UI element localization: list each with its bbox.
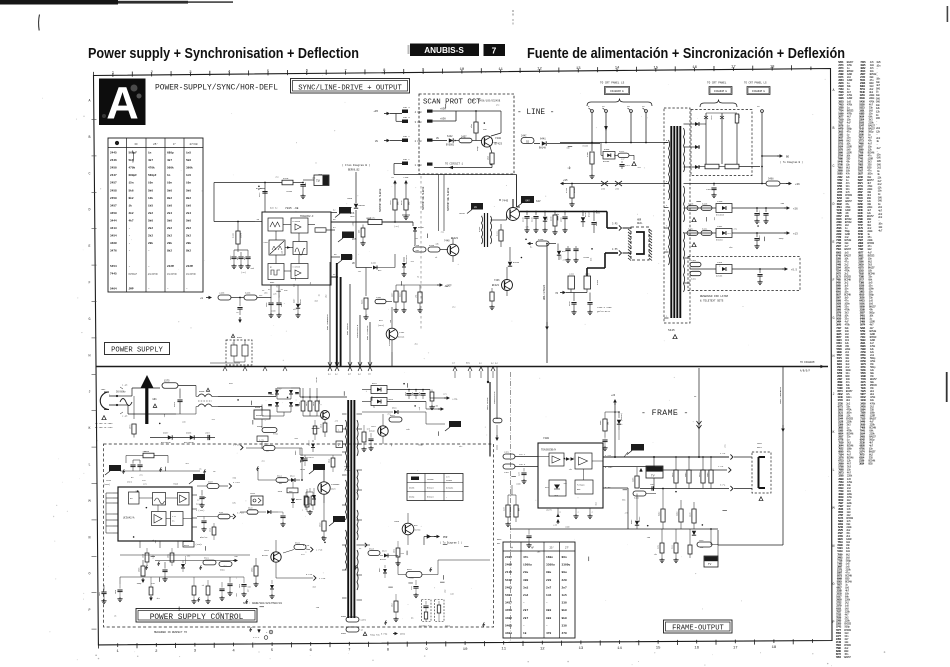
svg-text:2k2: 2k2 bbox=[186, 234, 191, 238]
svg-text:3428: 3428 bbox=[283, 177, 289, 180]
svg-text:100n: 100n bbox=[516, 482, 521, 485]
svg-text:6 P13: 6 P13 bbox=[306, 573, 313, 576]
svg-text:2507: 2507 bbox=[205, 432, 211, 435]
svg-text:7440: 7440 bbox=[495, 137, 502, 140]
svg-text:3': 3' bbox=[173, 142, 176, 146]
svg-text:5445: 5445 bbox=[668, 329, 675, 332]
svg-text:+5.5: +5.5 bbox=[791, 269, 798, 272]
svg-text:3444: 3444 bbox=[110, 219, 117, 222]
fold dash-dot line bbox=[510, 372, 512, 377]
svg-text:A/B/E/F: A/B/E/F bbox=[800, 370, 811, 373]
svg-text:120k: 120k bbox=[319, 400, 321, 404]
svg-text:2402: 2402 bbox=[505, 556, 512, 559]
svg-text:100n: 100n bbox=[101, 388, 106, 391]
svg-text:3457: 3457 bbox=[110, 204, 117, 207]
frame ic diode block bbox=[549, 480, 566, 496]
resistor 3468 rail36 bbox=[766, 181, 780, 186]
connector 2 P4 bbox=[728, 467, 731, 472]
diode 6588 extra bbox=[271, 580, 273, 584]
svg-text:7431: 7431 bbox=[399, 331, 405, 334]
capacitor 2586 bbox=[227, 583, 232, 585]
svg-text:2k4: 2k4 bbox=[167, 211, 172, 215]
svg-text:TO CRT PANEL LS: TO CRT PANEL LS bbox=[744, 82, 767, 85]
svg-text:100n: 100n bbox=[350, 215, 355, 218]
svg-text:hF: hF bbox=[135, 142, 139, 146]
svg-text:1R8: 1R8 bbox=[416, 295, 418, 298]
svg-text:BYD33: BYD33 bbox=[513, 261, 520, 264]
frame ic pins bottom bbox=[557, 508, 559, 514]
transistor 7503 bbox=[402, 523, 414, 535]
capacitor 2428 bbox=[302, 178, 304, 183]
svg-text:2402: 2402 bbox=[699, 539, 704, 542]
svg-text:S2000AF: S2000AF bbox=[331, 483, 340, 486]
svg-text:H: H bbox=[833, 354, 835, 358]
arrow +35 bbox=[426, 408, 440, 410]
svg-text:TO DIAGRAM: TO DIAGRAM bbox=[800, 361, 815, 364]
svg-text:MEASURED IN RESPECT TO: MEASURED IN RESPECT TO bbox=[154, 631, 188, 634]
junction sandcastle bbox=[487, 381, 489, 383]
svg-text:Q1: Q1 bbox=[270, 267, 272, 269]
svg-text:QW/LN-OPTS: QW/LN-OPTS bbox=[597, 310, 611, 313]
svg-text:+85A: +85A bbox=[440, 108, 446, 111]
svg-text:2461: 2461 bbox=[717, 225, 723, 228]
diode 6402 bbox=[636, 517, 638, 520]
svg-text:64V: 64V bbox=[536, 200, 541, 203]
svg-text:2432: 2432 bbox=[230, 256, 232, 260]
svg-text:3441: 3441 bbox=[496, 230, 499, 236]
svg-text:27': 27' bbox=[565, 547, 570, 550]
svg-text:BYD33: BYD33 bbox=[256, 187, 263, 190]
svg-text:TO CRT PANEL: TO CRT PANEL bbox=[707, 82, 727, 85]
svg-text:5580: 5580 bbox=[237, 336, 243, 339]
svg-text:4k7: 4k7 bbox=[293, 308, 296, 311]
wire sync input vertical bbox=[355, 172, 357, 203]
svg-text:560p: 560p bbox=[137, 582, 142, 585]
resistor 3501a bbox=[146, 548, 148, 553]
svg-text:3451: 3451 bbox=[505, 609, 512, 612]
wire to circuit 1 bbox=[491, 164, 493, 168]
resistor 3510 arrow bbox=[149, 587, 153, 595]
svg-text:3519: 3519 bbox=[329, 459, 331, 463]
svg-text:20k: 20k bbox=[186, 241, 191, 245]
resistor 3465 bbox=[687, 206, 698, 211]
secondary diode box 6504 bbox=[371, 386, 387, 394]
svg-text:BAV45: BAV45 bbox=[296, 498, 301, 501]
svg-text:2512: 2512 bbox=[405, 392, 407, 396]
input resistor 2455 bbox=[206, 297, 210, 299]
svg-text:390: 390 bbox=[523, 579, 528, 582]
svg-text:UC3842/A: UC3842/A bbox=[123, 517, 135, 520]
secondary diode box 6506 bbox=[371, 398, 387, 406]
svg-text:G: G bbox=[89, 317, 91, 321]
transistor 7431 bbox=[386, 328, 398, 340]
svg-text:2575: 2575 bbox=[173, 401, 176, 407]
svg-text:6402: 6402 bbox=[631, 520, 633, 524]
resistor 3515 bbox=[324, 420, 326, 423]
diode 6515 bbox=[312, 440, 314, 442]
svg-text:12k: 12k bbox=[152, 555, 154, 558]
svg-text:C.K.I: C.K.I bbox=[253, 636, 260, 639]
arrow BO to diagram B bbox=[762, 155, 779, 157]
svg-text:5k6: 5k6 bbox=[167, 188, 172, 192]
svg-text:3452: 3452 bbox=[691, 278, 697, 281]
resistor 3440 bbox=[428, 247, 440, 252]
wire to frame ic bbox=[490, 456, 497, 458]
svg-text:12: 12 bbox=[537, 67, 542, 71]
svg-text:POR: POR bbox=[443, 536, 448, 539]
tv load icon 1 bbox=[646, 466, 663, 478]
diode 6500 bbox=[182, 561, 184, 564]
svg-text:47u: 47u bbox=[155, 540, 157, 543]
resistor 3526 bbox=[368, 551, 380, 556]
svg-text:9k0: 9k0 bbox=[562, 616, 567, 620]
connector stub 4 C48 bbox=[427, 110, 433, 113]
svg-text:2458: 2458 bbox=[110, 189, 117, 192]
caps 2439 bbox=[573, 248, 578, 250]
svg-text:hF: hF bbox=[531, 547, 535, 550]
stereo dashed option box bbox=[422, 600, 432, 622]
svg-text:560p: 560p bbox=[779, 237, 784, 240]
svg-text:BA157: BA157 bbox=[844, 656, 851, 659]
svg-text:7590: 7590 bbox=[173, 483, 179, 486]
svg-text:10: 10 bbox=[460, 68, 465, 72]
svg-text:2460: 2460 bbox=[717, 200, 723, 203]
svg-text:TV: TV bbox=[708, 563, 712, 566]
caps 2466 bbox=[565, 248, 570, 250]
svg-text:5k6: 5k6 bbox=[129, 188, 134, 192]
svg-text:3521: 3521 bbox=[204, 557, 210, 560]
svg-text:2576: 2576 bbox=[130, 425, 132, 429]
wire frame out 3 bbox=[603, 487, 628, 489]
wire sync input lower bbox=[355, 221, 357, 268]
resistor 5462 bbox=[701, 231, 712, 236]
svg-text:7503: 7503 bbox=[394, 520, 400, 523]
svg-text:1n5: 1n5 bbox=[186, 174, 191, 177]
frame ic arrows bbox=[566, 457, 570, 461]
svg-text:6423: 6423 bbox=[400, 293, 402, 297]
svg-text:SUPPORTING SLEEVE: SUPPORTING SLEEVE bbox=[447, 187, 450, 211]
svg-text:1n: 1n bbox=[148, 152, 152, 155]
svg-text:N: N bbox=[89, 535, 91, 539]
capacitor 2507 bbox=[207, 435, 209, 440]
svg-text:BA105: BA105 bbox=[359, 204, 366, 207]
svg-text:3300u: 3300u bbox=[546, 564, 555, 567]
svg-text:9k0: 9k0 bbox=[562, 608, 567, 612]
svg-text:-: - bbox=[546, 602, 548, 605]
svg-text:0V5: 0V5 bbox=[352, 238, 357, 241]
svg-text:EB20: EB20 bbox=[184, 544, 190, 547]
svg-text:SANDCASTLE: SANDCASTLE bbox=[356, 324, 359, 338]
svg-text:FRAME-OUTPUT: FRAME-OUTPUT bbox=[672, 625, 724, 633]
svg-text:2514: 2514 bbox=[419, 392, 421, 396]
svg-text:3406: 3406 bbox=[633, 478, 635, 482]
bus to diagram arrow bbox=[816, 366, 822, 368]
svg-text:8k2: 8k2 bbox=[129, 196, 134, 200]
svg-text:1 P15: 1 P15 bbox=[316, 549, 323, 552]
resistor 3464 bbox=[690, 271, 701, 275]
svg-text:BA157: BA157 bbox=[638, 517, 641, 522]
posistor dashed option box bbox=[226, 340, 252, 365]
box WS05 bbox=[254, 410, 270, 419]
flag frame rail bbox=[627, 451, 632, 455]
transformer 5445 pin stubs left bbox=[664, 142, 669, 144]
transistor 7440b bbox=[447, 244, 459, 256]
diagram letter A box bbox=[99, 79, 146, 126]
svg-text:FLYBACK: FLYBACK bbox=[577, 484, 585, 487]
resistor 2438 bbox=[375, 299, 386, 303]
svg-text:TV2 1: TV2 1 bbox=[519, 453, 526, 456]
wire hor flyback vertical 2 bbox=[369, 322, 371, 366]
resistor 3459 bbox=[591, 143, 593, 152]
svg-text:1k: 1k bbox=[418, 276, 420, 278]
svg-text:2472: 2472 bbox=[625, 164, 631, 167]
hor defl loop bbox=[636, 232, 644, 254]
wire sandcastle vertical bbox=[359, 315, 361, 366]
svg-text:2467: 2467 bbox=[595, 221, 598, 226]
svg-text:G: G bbox=[833, 316, 835, 320]
frame bottom rail bbox=[510, 528, 718, 530]
resistor 3521 bbox=[203, 560, 216, 565]
capacitor 2467 bbox=[593, 212, 595, 222]
svg-text:17: 17 bbox=[733, 646, 738, 650]
vert feedback vertical wire bbox=[782, 367, 784, 546]
svg-text:5464: 5464 bbox=[110, 287, 117, 290]
svg-text:D: D bbox=[89, 208, 91, 212]
wire +5 rail bbox=[690, 268, 716, 270]
svg-text:DEFL: DEFL bbox=[757, 446, 763, 449]
svg-text:3 C48: 3 C48 bbox=[415, 121, 423, 124]
resistor 3441 bbox=[499, 230, 503, 241]
svg-text:SCH : 3458/105/03245B: SCH : 3458/105/03245B bbox=[470, 100, 501, 103]
svg-text:VERT: VERT bbox=[757, 442, 763, 445]
svg-text:DEFL: DEFL bbox=[637, 222, 643, 225]
crt pin wires group bbox=[591, 110, 594, 113]
resistor 3508 top bbox=[143, 453, 154, 458]
svg-text:RESERVED FOR LATAM: RESERVED FOR LATAM bbox=[700, 295, 728, 298]
svg-text:1n5: 1n5 bbox=[562, 594, 567, 597]
transformer 5520 core bars bbox=[347, 400, 349, 618]
svg-text:15: 15 bbox=[653, 66, 658, 70]
hor defl hatched box bbox=[631, 227, 649, 260]
svg-text:7510: 7510 bbox=[300, 468, 306, 471]
svg-text:+26: +26 bbox=[611, 394, 616, 397]
resistor 3502 bbox=[219, 562, 232, 567]
wire tda top feed bbox=[213, 183, 215, 222]
uc pin stubs bbox=[113, 492, 118, 494]
svg-text:2: 2 bbox=[578, 511, 579, 514]
svg-text:5 P13: 5 P13 bbox=[303, 544, 310, 547]
svg-text:2481: 2481 bbox=[504, 451, 510, 454]
svg-text:3527: 3527 bbox=[264, 443, 270, 446]
svg-text:POWER SUPPLY: POWER SUPPLY bbox=[111, 347, 163, 355]
flag TP07 bbox=[189, 480, 194, 484]
svg-text:3511: 3511 bbox=[306, 402, 308, 406]
svg-text:2n2: 2n2 bbox=[387, 413, 390, 416]
svg-text:5k6/1%: 5k6/1% bbox=[200, 536, 208, 539]
uc pin wires left bbox=[106, 492, 113, 494]
resistor 3457 bbox=[455, 140, 459, 142]
fuse 1575 bbox=[162, 383, 178, 389]
svg-text:2477: 2477 bbox=[758, 210, 761, 215]
transistor 7445 line output bbox=[507, 208, 520, 221]
svg-text:HOR FLYBACK: HOR FLYBACK bbox=[366, 325, 369, 340]
svg-text:15n: 15n bbox=[129, 182, 134, 185]
diode box 6462 bbox=[716, 229, 732, 238]
svg-text:2 C48: 2 C48 bbox=[415, 140, 423, 143]
diode D13 winding low bbox=[690, 166, 700, 168]
diagram E box 2 bbox=[709, 87, 732, 95]
svg-text:DEMO: DEMO bbox=[400, 633, 406, 636]
wire uc top rail bbox=[120, 470, 200, 472]
svg-text:4k7: 4k7 bbox=[167, 158, 172, 162]
svg-text:2445: 2445 bbox=[110, 152, 117, 155]
badge 7 bbox=[484, 44, 506, 56]
mono dashed option box bbox=[435, 600, 445, 622]
svg-text:SB 160 TO 250V: SB 160 TO 250V bbox=[95, 422, 113, 425]
svg-text:HOR FEEDBACK: HOR FEEDBACK bbox=[326, 314, 329, 330]
thick arrow mains bbox=[145, 380, 148, 424]
svg-text:47n: 47n bbox=[335, 420, 338, 423]
svg-text:2452: 2452 bbox=[691, 259, 697, 262]
svg-text:5k6: 5k6 bbox=[186, 158, 191, 162]
svg-text:BYD33: BYD33 bbox=[286, 190, 293, 193]
svg-text:42: 42 bbox=[268, 288, 270, 291]
svg-text:5526: 5526 bbox=[295, 542, 301, 545]
tda left pin wire bbox=[255, 221, 262, 223]
wire s-correction path bbox=[605, 252, 618, 254]
box 2.5L bbox=[257, 436, 268, 442]
svg-text:(0V6): (0V6) bbox=[104, 483, 110, 486]
badge ANUBIS-S bbox=[410, 44, 479, 57]
svg-text:+26: +26 bbox=[793, 208, 798, 211]
svg-text:25': 25' bbox=[153, 142, 158, 146]
svg-text:MONO: MONO bbox=[445, 625, 451, 628]
IC 7400 TDA3653 outline bbox=[538, 443, 603, 508]
svg-text:0V6: 0V6 bbox=[236, 593, 238, 596]
svg-text:H: H bbox=[89, 353, 91, 357]
svg-text:TP04: TP04 bbox=[106, 479, 112, 482]
arrow +5 bbox=[782, 268, 786, 270]
svg-text:7B6A: 7B6A bbox=[347, 197, 353, 200]
flag 0V5 bbox=[338, 238, 343, 242]
svg-text:1k0: 1k0 bbox=[167, 203, 172, 207]
cap 2401 bbox=[651, 486, 653, 490]
parts list tiny text columns bbox=[836, 61, 883, 659]
arrow +16A sleeve bbox=[405, 182, 407, 185]
wire collector rail heavy bbox=[512, 199, 514, 208]
svg-text:2447: 2447 bbox=[110, 174, 117, 177]
svg-text:3634: 3634 bbox=[859, 463, 865, 466]
spark gap lamp 1 bbox=[705, 113, 707, 124]
svg-text:TDA3653B/H: TDA3653B/H bbox=[541, 449, 557, 452]
svg-text:PAD 3: PAD 3 bbox=[403, 116, 410, 119]
opto coupler 7516 bbox=[251, 496, 263, 505]
source resistors bbox=[304, 496, 308, 505]
svg-text:( To Diagram C ): ( To Diagram C ) bbox=[440, 542, 462, 545]
svg-text:2437: 2437 bbox=[281, 303, 283, 307]
svg-text:D: D bbox=[833, 202, 835, 206]
svg-text:1k: 1k bbox=[523, 631, 527, 635]
svg-text:560p: 560p bbox=[418, 443, 423, 446]
svg-text:4u7: 4u7 bbox=[185, 462, 188, 465]
svg-text:R P09: R P09 bbox=[381, 633, 388, 636]
svg-text:2463: 2463 bbox=[717, 261, 723, 264]
flag 64V bbox=[517, 203, 522, 207]
resistor block lamp out 1 bbox=[705, 164, 719, 169]
svg-text:16: 16 bbox=[694, 647, 699, 651]
svg-text:1 P16: 1 P16 bbox=[319, 577, 326, 580]
svg-text:(2V): (2V) bbox=[394, 225, 399, 228]
svg-text:47n: 47n bbox=[714, 217, 716, 220]
svg-text:BA148: BA148 bbox=[539, 147, 547, 150]
secondary res 3512 bbox=[430, 392, 434, 401]
svg-text:DIAGRAM E: DIAGRAM E bbox=[610, 90, 624, 93]
svg-text:2455: 2455 bbox=[219, 292, 225, 295]
arrow +36 bbox=[780, 183, 789, 185]
svg-text:3501: 3501 bbox=[168, 554, 170, 558]
spark gap lamp 2 bbox=[721, 113, 723, 124]
resistor 2428b bbox=[362, 225, 364, 229]
svg-text:K: K bbox=[89, 426, 91, 430]
resistor 5526 bbox=[294, 545, 306, 550]
svg-text:SUPPORTING SLEEVE: SUPPORTING SLEEVE bbox=[422, 186, 425, 210]
resistor 3472 bbox=[618, 153, 629, 157]
svg-text:4k7: 4k7 bbox=[374, 405, 376, 408]
svg-text:BY500J: BY500J bbox=[446, 144, 455, 147]
svg-text:1k0: 1k0 bbox=[470, 123, 473, 128]
transformer bottom resistors bbox=[346, 617, 359, 622]
svg-text:+95: +95 bbox=[373, 110, 378, 113]
svg-text:B: B bbox=[89, 135, 91, 139]
svg-text:2434: 2434 bbox=[569, 273, 575, 276]
svg-text:7445: 7445 bbox=[502, 200, 509, 203]
svg-text:5455: 5455 bbox=[245, 292, 251, 295]
svg-text:27/60: 27/60 bbox=[189, 142, 197, 146]
svg-text:2n7: 2n7 bbox=[562, 586, 567, 589]
svg-text:B: B bbox=[833, 126, 835, 130]
arrow +26 ic bottom bbox=[557, 521, 559, 524]
svg-text:3502: 3502 bbox=[220, 569, 226, 572]
capacitor 2464 bbox=[759, 268, 761, 270]
tda internal wires bbox=[283, 224, 291, 226]
svg-text:10n: 10n bbox=[148, 182, 153, 185]
resistor 3527 bbox=[263, 446, 275, 451]
diode 6440 BY228 bbox=[582, 212, 584, 217]
svg-text:3459: 3459 bbox=[110, 212, 117, 215]
svg-text:3n3: 3n3 bbox=[523, 586, 528, 589]
connector 3 P13 bbox=[233, 514, 236, 519]
svg-text:POWER-SUPPLY/SYNC/HOR-DEFL: POWER-SUPPLY/SYNC/HOR-DEFL bbox=[155, 84, 278, 93]
diode D11 winding top bbox=[690, 123, 700, 125]
transformer 5445 pin stubs right bbox=[684, 123, 691, 125]
svg-text:100u: 100u bbox=[412, 392, 414, 396]
svg-text:47u: 47u bbox=[496, 104, 499, 107]
svg-text:3401: 3401 bbox=[505, 632, 512, 635]
svg-text:11: 11 bbox=[501, 648, 506, 652]
diode box 6459 bbox=[603, 152, 615, 160]
diode 6436 bbox=[509, 247, 511, 261]
wire +13 rail bbox=[690, 232, 716, 234]
svg-text:2k2: 2k2 bbox=[148, 234, 153, 238]
svg-text:3524: 3524 bbox=[277, 475, 283, 478]
svg-text:(0V): (0V) bbox=[331, 488, 336, 491]
svg-text:BER06_B2: BER06_B2 bbox=[348, 169, 360, 172]
svg-text:7445: 7445 bbox=[110, 272, 117, 275]
svg-text:(2V5)J: (2V5)J bbox=[196, 544, 202, 546]
svg-text:10n: 10n bbox=[186, 182, 191, 185]
wire base drive bbox=[491, 219, 507, 221]
diagram E box 3 bbox=[747, 87, 770, 95]
